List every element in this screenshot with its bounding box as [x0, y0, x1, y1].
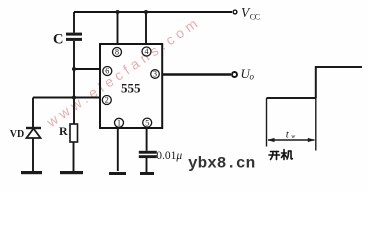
svg-text:VD: VD: [10, 129, 24, 140]
svg-text:CC: CC: [250, 12, 261, 21]
svg-text:1: 1: [117, 119, 121, 128]
svg-text:5: 5: [145, 118, 149, 127]
svg-text:t: t: [286, 128, 290, 140]
svg-text:555: 555: [121, 81, 141, 96]
svg-text:4: 4: [145, 47, 149, 56]
svg-text:ybx8.cn: ybx8.cn: [188, 154, 255, 172]
svg-text:o: o: [250, 72, 255, 82]
svg-text:w: w: [291, 134, 295, 140]
svg-text:3: 3: [153, 70, 157, 79]
svg-text:8: 8: [115, 48, 119, 57]
svg-text:C: C: [53, 31, 63, 47]
svg-text:R: R: [59, 124, 68, 138]
svg-text:2: 2: [105, 96, 109, 105]
svg-text:6: 6: [105, 67, 109, 76]
svg-text:0.01μ: 0.01μ: [156, 150, 182, 162]
svg-text:www.elecfans.com: www.elecfans.com: [43, 13, 204, 130]
